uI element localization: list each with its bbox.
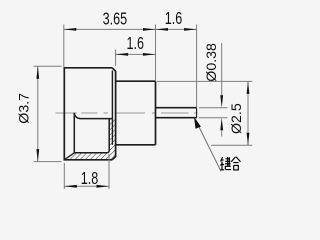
svg-text:Ø3.7: Ø3.7	[17, 93, 33, 124]
svg-text:Ø0.38: Ø0.38	[204, 43, 220, 82]
svg-text:1.6: 1.6	[127, 34, 144, 54]
svg-text:3.65: 3.65	[103, 9, 127, 29]
svg-text:1.8: 1.8	[81, 169, 98, 189]
svg-text:1.6: 1.6	[165, 9, 182, 29]
svg-text:Ø2.5: Ø2.5	[229, 103, 245, 134]
